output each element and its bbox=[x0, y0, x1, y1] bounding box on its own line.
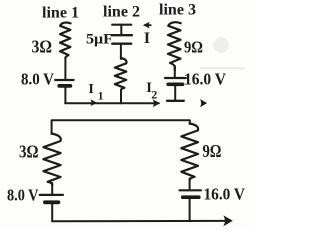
top rail of bottom circuit bbox=[52, 120, 190, 134]
node line2 label bbox=[103, 3, 140, 20]
svg-text:line 3: line 3 bbox=[159, 1, 196, 18]
battery V1 short plate bbox=[59, 84, 70, 88]
wire R2 to bottom rail bbox=[120, 90, 122, 104]
battery V3 16.0V long plate bbox=[165, 77, 186, 79]
svg-text:3Ω: 3Ω bbox=[32, 36, 53, 56]
wire battery V4 to bottom rail bbox=[51, 202, 53, 221]
svg-text:8.0 V: 8.0 V bbox=[7, 186, 39, 205]
label 9ohm top bbox=[184, 37, 203, 56]
svg-text:3Ω: 3Ω bbox=[19, 141, 39, 161]
battery V5 16.0V long plate bbox=[180, 189, 202, 191]
svg-text:8.0 V: 8.0 V bbox=[21, 70, 55, 89]
bottom rail of bottom circuit bbox=[52, 220, 225, 222]
resistor R1 3ohm line1 bbox=[60, 23, 71, 58]
capacitor C1 bottom plate bbox=[112, 43, 131, 45]
svg-text:1: 1 bbox=[98, 90, 104, 102]
capacitor C1 top terminal bar bbox=[112, 24, 131, 26]
current arrow I top bbox=[143, 22, 150, 29]
label 16.0V top bbox=[184, 70, 227, 89]
label 5uF bbox=[86, 32, 113, 48]
arrowhead line3 bottom right bbox=[200, 99, 207, 107]
battery V1 8.0V long plate bbox=[55, 79, 73, 81]
label 8.0V bottom bbox=[7, 186, 39, 205]
wire R5 to battery V5 bbox=[189, 179, 191, 190]
wire R1 to battery bbox=[64, 58, 66, 80]
svg-text:9Ω: 9Ω bbox=[184, 37, 203, 56]
battery V4 8.0V long plate bbox=[40, 194, 63, 196]
battery V4 short plate bbox=[45, 200, 59, 204]
svg-text:line 2: line 2 bbox=[103, 3, 140, 20]
scan smudge top right bbox=[213, 37, 229, 53]
current arrow I2 bbox=[153, 99, 160, 107]
resistor R3 9ohm line3 bbox=[168, 22, 181, 70]
label I top bbox=[144, 30, 150, 47]
svg-text:16.0 V: 16.0 V bbox=[184, 70, 227, 89]
resistor R4 3ohm bottom bbox=[43, 134, 60, 185]
scan dots row bbox=[200, 68, 245, 70]
svg-text:16.0 V: 16.0 V bbox=[204, 184, 246, 203]
wire capacitor to R2 bbox=[120, 44, 122, 59]
wire battery V3 to terminal bbox=[174, 84, 176, 100]
label 3ohm bottom bbox=[19, 141, 39, 161]
capacitor C1 5uF top plate bbox=[112, 34, 132, 36]
wire battery V1 to bottom rail bbox=[64, 86, 66, 103]
resistor R2 line2 bbox=[115, 58, 127, 90]
bottom rail of top circuit bbox=[65, 102, 159, 104]
label 8.0V top bbox=[21, 70, 55, 89]
svg-text:2: 2 bbox=[151, 87, 157, 101]
wire terminal to capacitor bbox=[120, 25, 122, 34]
svg-text:I: I bbox=[144, 30, 150, 47]
terminal bar line3 bottom bbox=[167, 100, 184, 102]
wire R4 to battery V4 bbox=[51, 183, 53, 194]
svg-text:5μF: 5μF bbox=[86, 32, 113, 48]
node line3 label bbox=[159, 1, 196, 18]
svg-text:9Ω: 9Ω bbox=[203, 141, 222, 161]
label I2 bbox=[146, 80, 157, 101]
battery V3 short plate bbox=[168, 82, 182, 86]
battery V5 short plate bbox=[183, 195, 199, 199]
wire R3 to battery bbox=[174, 66, 176, 77]
label 16.0V bottom bbox=[204, 184, 246, 203]
label I1 bbox=[88, 82, 103, 103]
resistor R5 9ohm bottom bbox=[181, 124, 198, 181]
svg-text:I: I bbox=[88, 82, 93, 97]
label 9ohm bottom bbox=[203, 141, 222, 161]
arrowhead bottom rail bbox=[223, 215, 232, 226]
label 3ohm top bbox=[32, 36, 53, 56]
node line1 label bbox=[42, 4, 79, 21]
wire battery V5 to bottom rail bbox=[189, 197, 191, 221]
svg-text:line 1: line 1 bbox=[42, 4, 79, 21]
current arrow I1 bbox=[90, 99, 97, 106]
